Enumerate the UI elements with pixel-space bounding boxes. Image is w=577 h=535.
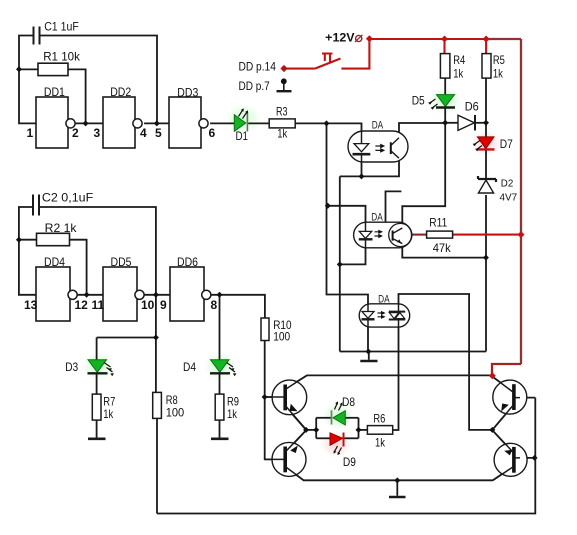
wire node to R6 — [359, 429, 368, 431]
svg-text:D8: D8 — [342, 395, 355, 409]
wire node to D6 anode — [445, 122, 458, 124]
wire C2 right to node 9 — [39, 207, 156, 295]
svg-text:DD p.7: DD p.7 — [239, 79, 270, 93]
node midpoint right — [489, 427, 495, 433]
svg-text:C1 1uF: C1 1uF — [44, 20, 79, 34]
wire D7 to D2 — [485, 149, 487, 178]
wire bottom transistor rail y480 — [303, 479, 493, 481]
wire Q4 emitter diagonal — [492, 430, 513, 452]
wire left ground drop — [339, 176, 341, 351]
svg-text:3: 3 — [94, 126, 101, 140]
wire D5 cathode stub — [444, 108, 446, 123]
svg-text:13: 13 — [24, 298, 38, 312]
LED D7 — [473, 137, 513, 151]
svg-text:R6: R6 — [373, 412, 385, 426]
svg-text:DA: DA — [378, 294, 390, 306]
wire D6 cathode to node — [475, 122, 486, 124]
wire C2 left / DD4 pin13 — [19, 207, 36, 295]
wire R1 right lead to node 2 — [68, 69, 86, 123]
wire Q3 emitter diagonal — [492, 406, 513, 430]
wire node to D7 — [485, 123, 487, 137]
svg-text:9: 9 — [160, 298, 167, 312]
resistor R8 — [153, 392, 185, 419]
inverter DD5 — [92, 255, 155, 321]
optocoupler DA2 — [354, 212, 412, 248]
svg-text:1k: 1k — [103, 407, 114, 421]
wire LED branch right vertical — [358, 418, 360, 439]
wire DA1 emitter and bottom rail — [340, 159, 399, 177]
wire Q1 emitter diagonal — [285, 406, 306, 430]
wire R11 to red bus — [453, 234, 522, 236]
ground R9 — [211, 437, 229, 440]
wire bubble2 to DD3 — [144, 122, 169, 124]
svg-text:4V7: 4V7 — [500, 191, 518, 203]
wire collector rail y375 — [307, 374, 492, 376]
wire bottom rail — [157, 398, 535, 514]
inverter DD6 — [160, 255, 218, 321]
wire R9 bottom stub — [219, 420, 221, 438]
svg-text:2: 2 — [72, 126, 79, 140]
zener D2 — [478, 176, 517, 203]
resistor R4 — [440, 53, 465, 81]
wire D9 to right vertical — [344, 437, 358, 439]
wire red jog to Q3 base — [492, 364, 521, 376]
wire R2 left lead — [19, 239, 37, 241]
LED D3 — [65, 360, 114, 377]
wire bubble4 to DD5 — [77, 294, 103, 296]
wire ground rail horizontal — [340, 351, 486, 353]
svg-text:11: 11 — [92, 298, 105, 312]
wire node9 down to R8 — [155, 295, 157, 393]
resistor R11 — [427, 216, 453, 256]
node pin10/9 — [153, 292, 159, 298]
svg-text:8: 8 — [211, 298, 218, 312]
svg-text:6: 6 — [209, 126, 216, 140]
wire R5 stub — [485, 39, 487, 54]
svg-text:C2 0,1uF: C2 0,1uF — [42, 190, 93, 204]
ground R7 — [88, 437, 106, 440]
svg-text:1: 1 — [27, 126, 34, 140]
ground DA3 — [360, 360, 377, 363]
svg-text:R11: R11 — [429, 216, 447, 230]
wire D1 to R3 — [248, 122, 269, 124]
terminal DD p.14 — [239, 60, 288, 74]
wire main left vertical to DA3 anode — [327, 123, 369, 304]
wire Q4 right lead — [516, 457, 535, 459]
node LED branch left — [313, 427, 319, 433]
svg-text:1k: 1k — [375, 435, 386, 449]
wire Q1 collector diagonal — [285, 375, 307, 389]
svg-text:DD5: DD5 — [111, 255, 132, 269]
inverter DD4 — [24, 255, 88, 321]
glow D5 — [429, 87, 461, 115]
resistor R3 — [269, 105, 295, 141]
LED D4 — [183, 360, 237, 377]
transistor Q4 — [492, 430, 527, 480]
wire D2 anode down to ground rail — [485, 195, 487, 352]
wire C1 right to node 5 — [40, 36, 158, 124]
svg-text:R3: R3 — [276, 105, 288, 119]
svg-text:5: 5 — [155, 126, 162, 140]
wire Q2 emitter diagonal — [285, 430, 306, 452]
resistor R5 — [482, 53, 505, 81]
inverter DD3 — [155, 86, 216, 149]
wire ground stub DA3 — [368, 352, 370, 360]
node pin4/5 — [154, 120, 160, 126]
resistor R6 — [367, 412, 392, 450]
wire DA1 collector to node D5/D6 — [399, 123, 445, 137]
node Q4 right — [532, 455, 538, 461]
ground bottom — [389, 496, 406, 499]
resistor R10 — [261, 318, 292, 343]
svg-text:D9: D9 — [343, 455, 356, 469]
LED D5 — [412, 94, 455, 110]
wire bubble3 to D1 — [210, 122, 234, 124]
wire Q1 base lead — [265, 396, 284, 398]
svg-text:DD p.14: DD p.14 — [239, 60, 277, 74]
svg-text:R4: R4 — [453, 53, 465, 67]
resistor R1 — [38, 49, 81, 75]
svg-text:12: 12 — [75, 298, 89, 312]
svg-text:D7: D7 — [500, 137, 513, 151]
capacitor C1 — [34, 27, 40, 45]
wire triac top detour to right midpoint — [399, 294, 493, 430]
svg-text:DA: DA — [372, 119, 384, 131]
glow D3 — [82, 352, 114, 380]
diode D6 — [458, 99, 479, 130]
svg-text:100: 100 — [273, 329, 290, 343]
node DA1 cathode — [359, 173, 365, 179]
node pin2/3 — [83, 120, 89, 126]
node pin12/11 — [84, 292, 90, 298]
wire R4 stub — [443, 39, 445, 54]
svg-text:1k: 1k — [453, 67, 464, 81]
wire bubble5 to DD6 — [144, 294, 170, 296]
wire bubble6 to R10 — [211, 295, 265, 318]
node ground2 — [394, 477, 400, 483]
svg-text:D4: D4 — [183, 360, 196, 374]
svg-text:D2: D2 — [501, 178, 514, 190]
wire +12V rail bright — [369, 38, 486, 40]
wire base rail R10 to Q2 — [265, 341, 284, 460]
svg-text:100: 100 — [166, 405, 185, 419]
svg-text:DD1: DD1 — [44, 85, 65, 99]
svg-text:+12V: +12V — [325, 31, 354, 45]
wire R3 to DA1 anode — [295, 123, 361, 131]
node R11 bus — [518, 231, 525, 238]
LED D9 — [330, 433, 356, 470]
svg-text:D6: D6 — [465, 99, 479, 113]
svg-text:DD4: DD4 — [44, 255, 65, 269]
svg-text:DD2: DD2 — [110, 85, 131, 99]
node D6/D7 — [483, 120, 489, 126]
optocoupler DA3 — [359, 294, 410, 327]
resistor R9 — [215, 394, 239, 421]
transistor Q1 — [266, 375, 307, 429]
svg-text:DD3: DD3 — [177, 86, 198, 100]
node D3 branch — [153, 335, 159, 341]
svg-text:R5: R5 — [493, 53, 505, 67]
resistor R7 — [92, 394, 115, 421]
wire Q4 collector diagonal — [493, 467, 513, 481]
node R5 top — [483, 36, 490, 43]
svg-text:4: 4 — [140, 126, 147, 140]
inverter DD1 — [27, 85, 80, 148]
node DA2 anode — [325, 203, 331, 209]
glow D7 — [471, 130, 501, 156]
node midpoint left — [303, 427, 309, 433]
wire D3 branch horizontal — [97, 337, 156, 339]
transistor Q3 — [492, 376, 527, 429]
svg-text:D1: D1 — [236, 129, 249, 143]
node pin8 — [217, 292, 223, 298]
capacitor C2 — [33, 195, 39, 216]
switch SA1 blade — [315, 59, 341, 69]
svg-text:1k: 1k — [227, 407, 238, 421]
svg-text:47k: 47k — [433, 241, 452, 255]
svg-text:R2 1k: R2 1k — [45, 221, 78, 235]
optocoupler DA1 — [348, 119, 408, 162]
wire Q3 right lead — [516, 397, 536, 399]
wire midpoint to LED branch — [306, 429, 316, 431]
terminal DD p.7 — [239, 78, 292, 93]
wire Q3 base diagonal — [492, 376, 513, 392]
wire R7 bottom stub — [96, 420, 98, 438]
wire C1 left / DD1 pin1 — [19, 36, 36, 124]
node Q1 base — [262, 394, 268, 400]
wire R4 bottom to D5 — [444, 78, 446, 94]
switch SA1 button — [322, 54, 333, 64]
wire branch bottom to D9 — [316, 437, 330, 439]
wire +12V drop to switch — [341, 39, 369, 69]
wire DA1 LED cathode — [361, 155, 363, 176]
wire D4 to R9 — [219, 373, 221, 394]
svg-text:D5: D5 — [412, 94, 425, 108]
wire DA2 base step — [386, 191, 402, 235]
wire DA2 emitter — [402, 243, 486, 258]
wire DA2 collector to node D5/D6 — [402, 123, 445, 228]
LED D1 — [234, 108, 248, 143]
wire Q2 collector diagonal — [285, 467, 303, 481]
transistor Q2 — [266, 430, 306, 480]
LED D8 — [332, 395, 356, 425]
node R4 top — [441, 36, 448, 43]
glow D8 — [322, 402, 354, 430]
node R1 left — [16, 66, 22, 72]
wire DA3 cathode to ground — [367, 327, 369, 352]
wire R8 bottom — [156, 418, 158, 513]
svg-text:1k: 1k — [277, 127, 288, 141]
svg-text:R1 10k: R1 10k — [43, 49, 81, 63]
wire D8 to right vertical — [345, 417, 358, 419]
wire branch top to D8 — [316, 417, 331, 419]
node junction dots red — [366, 35, 525, 379]
terminal +12V circle — [355, 35, 362, 42]
resistor R2 — [37, 221, 78, 246]
node DA2 cathode — [337, 261, 343, 267]
wire node8 down to D4 — [219, 295, 221, 360]
wire ground2 stub — [396, 480, 398, 496]
wire R2 right lead to node 11 — [70, 240, 87, 295]
wire D3 anode drop — [96, 338, 98, 360]
wire R1 left lead — [19, 68, 38, 70]
wire D3 to R7 — [96, 373, 98, 394]
svg-text:1k: 1k — [493, 67, 504, 81]
wire DA2 anode — [328, 206, 366, 223]
inverter DD2 — [94, 85, 148, 148]
wire DA2 LED cathode — [340, 240, 366, 264]
node +12V main — [366, 35, 373, 42]
glow D9 — [321, 431, 351, 457]
wire LED branch left vertical — [315, 418, 317, 439]
wire DA2 to R11 — [412, 234, 427, 236]
svg-text:D3: D3 — [65, 360, 78, 374]
svg-text:DA: DA — [371, 212, 383, 224]
node R2 left — [16, 237, 22, 243]
node LED branch right — [356, 427, 362, 433]
switch and red power wiring — [284, 39, 521, 235]
wire bubble1 to DD2 — [75, 122, 103, 124]
node DA3 ground — [365, 349, 371, 355]
node Q3 base red — [489, 372, 496, 379]
wire red right vertical — [520, 39, 522, 364]
node R3/DA1 — [324, 120, 330, 126]
wire p14 to switch — [284, 68, 315, 70]
svg-text:DD6: DD6 — [177, 255, 198, 269]
wire +12V rail dark segment — [486, 38, 521, 40]
glow D4 — [204, 352, 236, 380]
node D5/D6 — [442, 120, 448, 126]
wire triac bottom to R6 — [393, 327, 399, 430]
node D2/emitter — [483, 255, 489, 261]
glow D1 — [226, 104, 260, 134]
svg-text:10: 10 — [141, 298, 155, 312]
node junction dots black — [16, 66, 538, 483]
wire R5 bottom — [485, 78, 487, 123]
